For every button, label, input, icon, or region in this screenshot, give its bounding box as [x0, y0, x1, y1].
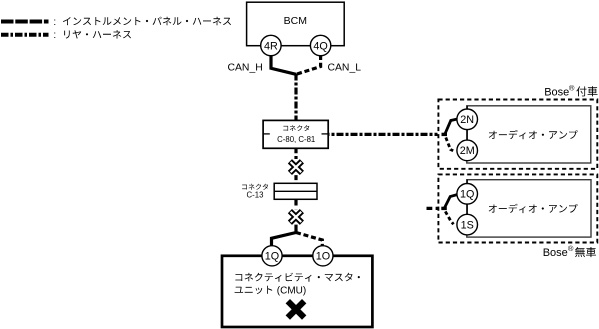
connector C-80,C-81 left tick — [264, 133, 270, 135]
connector pin 1Q (amp) — [457, 184, 478, 205]
wire trunk from X mark 2 down to CMU split — [294, 216, 297, 234]
svg-text:®: ® — [568, 244, 574, 253]
wire solid split to pin 1Q of CMU — [272, 233, 297, 247]
label fusha kanji — [576, 86, 597, 96]
wire rear-harness horizontal from C-80/C-81 to audio amp junction — [329, 133, 438, 136]
audio amp box (Bose equipped) — [467, 106, 591, 163]
svg-text:CAN_L: CAN_L — [328, 62, 362, 73]
CMU label line2 katakana — [235, 286, 273, 294]
svg-text:C-80, C-81: C-80, C-81 — [277, 135, 315, 144]
wire dashed split to pin 1O of CMU — [296, 233, 322, 247]
svg-text:1O: 1O — [316, 251, 330, 263]
connector C-13 midline — [274, 190, 317, 192]
svg-text:CAN_H: CAN_H — [228, 62, 263, 73]
audio amp label (no Bose) — [489, 204, 578, 213]
svg-text:®: ® — [569, 83, 575, 92]
audio amp box (no Bose) — [467, 180, 591, 237]
wire CAN_H solid from 4R to junction — [271, 55, 296, 74]
CMU bold X mark — [288, 301, 304, 317]
link line between pins 2N and 2M — [466, 129, 468, 140]
svg-text::: : — [53, 17, 56, 28]
connector pin 1S — [457, 214, 478, 235]
wire trunk twisted-pair from junction down to connector C-80/C-81 — [294, 74, 297, 121]
connector pin 1O (CMU) — [313, 246, 333, 266]
svg-text:2M: 2M — [460, 145, 475, 157]
BCM module box — [247, 2, 345, 46]
svg-text:4R: 4R — [264, 40, 278, 52]
junction blob at amp wire split (top) — [442, 133, 448, 136]
link line pin 2N to box top — [466, 106, 468, 109]
wire trunk from C-13 down to X mark 2 — [294, 199, 297, 216]
link line pin 1Q to box top — [466, 180, 468, 184]
CMU connectivity master unit box — [222, 256, 372, 327]
svg-text:1Q: 1Q — [265, 251, 279, 263]
connector pin 4R — [261, 35, 281, 55]
connector C-13 label konekuta — [242, 184, 268, 190]
svg-text:Bose: Bose — [544, 86, 569, 98]
label Bose without-car (no Bose) — [543, 244, 574, 259]
connector pin 4Q — [310, 35, 330, 55]
svg-text:BCM: BCM — [284, 15, 307, 27]
disconnect X mark 2 — [288, 209, 304, 224]
wire stub rear-harness to no-Bose amp — [427, 207, 440, 210]
wire CAN_L dashed from 4Q to junction — [296, 55, 321, 74]
junction blob at amp wire split (bottom) — [441, 207, 447, 210]
svg-text:C-13: C-13 — [247, 190, 264, 199]
wire dashed branch to pin 1S — [445, 211, 453, 224]
label musha kanji — [575, 247, 596, 257]
connector pin 1Q (CMU) — [262, 246, 282, 266]
svg-text:2N: 2N — [460, 114, 474, 126]
wire solid branch to pin 2N — [445, 119, 457, 135]
wire solid branch to pin 1Q (amp) — [444, 195, 457, 209]
svg-text:Bose: Bose — [543, 247, 568, 259]
connector C-80,C-81 label konekuta — [283, 125, 309, 131]
svg-text:1S: 1S — [461, 219, 474, 231]
legend line rear-harness sample — [1, 33, 49, 37]
wire dashed branch to pin 2M — [446, 138, 453, 151]
Bose-equipped dashed group box — [438, 100, 597, 169]
connector C-13 box — [274, 183, 317, 199]
link line between pins 1Q and 1S — [466, 204, 468, 214]
legend label instrument-panel-harness text — [63, 17, 231, 26]
legend line instrument-panel-harness sample — [1, 20, 49, 24]
audio amp label (Bose equipped) — [489, 130, 578, 139]
Bose-not-equipped dashed group box — [438, 174, 597, 242]
label Bose with-car (Bose equipped) — [544, 83, 575, 98]
disconnect X mark 1 — [288, 159, 304, 174]
connector pin 2M — [457, 140, 478, 161]
wire trunk from C-80/C-81 down to connector C-13 — [294, 148, 297, 183]
svg-text:(CMU): (CMU) — [277, 285, 306, 296]
svg-text:4Q: 4Q — [313, 40, 327, 52]
svg-text::: : — [53, 30, 56, 41]
legend label rear-harness text — [64, 30, 131, 38]
svg-text:1Q: 1Q — [460, 189, 474, 201]
connector C-80,C-81 box — [263, 120, 328, 148]
connector C-80,C-81 right tick — [322, 133, 328, 135]
connector pin 2N — [457, 109, 478, 130]
CMU label line1 — [235, 273, 360, 282]
